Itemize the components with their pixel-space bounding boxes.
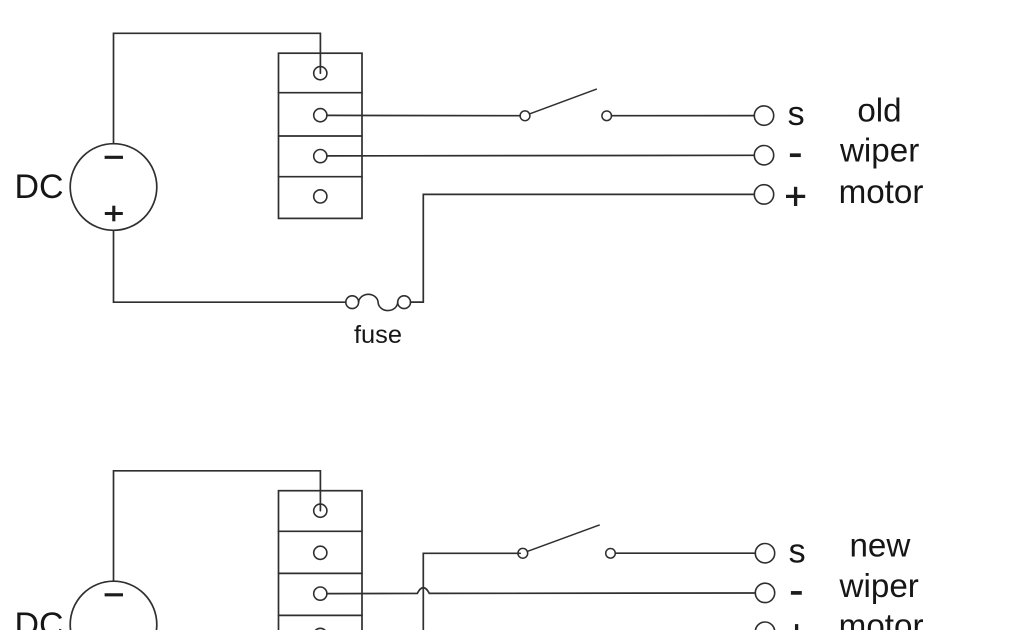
motor terminal plus circle (old) (754, 185, 773, 204)
motor terminal s circle (new) (755, 544, 774, 563)
fuse F1 left circle (old) (346, 296, 359, 309)
svg-text:motor: motor (839, 174, 924, 211)
switch S1 left contact (old) (520, 111, 530, 121)
label "+" (old) (786, 187, 805, 206)
terminal T3 circle (new) (314, 587, 327, 600)
fuse F1 right circle (old) (398, 296, 411, 309)
terminal block divider 1 (new) (279, 530, 363, 532)
terminal block divider 2 (new) (279, 572, 363, 574)
DC source B1 circle (old circuit) (70, 144, 157, 231)
wire: motor plus left and down to fuse (old) (411, 194, 755, 302)
svg-text:s: s (788, 95, 805, 133)
switch S2 right contact (new) (606, 549, 616, 559)
wire: fuse to DC positive (old) (114, 230, 346, 302)
terminal block body (new) (279, 491, 363, 630)
label "-" (new) (791, 591, 802, 595)
wire: switch to motor terminal s (new) (615, 552, 755, 554)
wire: DC negative up and over to terminal block T1 (new) (114, 471, 321, 581)
wire: vertical riser from plus node to switch (new) (423, 553, 520, 630)
terminal T3 circle (old) (314, 150, 327, 163)
terminal block divider 3 (old) (279, 176, 363, 178)
wire: terminal T3 to motor minus with hop over riser (new) (327, 588, 755, 594)
terminal T1 circle (new) (314, 504, 327, 517)
terminal T4 circle (new) (314, 628, 327, 630)
motor terminal minus circle (old) (754, 146, 773, 165)
wire: DC negative up and over to terminal block T1 (old) (114, 33, 321, 143)
svg-text:new: new (849, 527, 911, 564)
svg-text:DC: DC (15, 606, 64, 630)
label "-" (old) (790, 153, 801, 157)
switch S2 blade (new) (527, 525, 599, 551)
terminal block divider 2 (old) (279, 135, 363, 137)
DC source plus sign (old) (105, 206, 123, 222)
svg-text:wiper: wiper (839, 133, 919, 170)
label "+" (new) (787, 624, 806, 630)
terminal block divider 3 (new) (279, 614, 363, 616)
motor terminal plus circle (new) (755, 622, 774, 630)
switch S1 right contact (old) (602, 111, 612, 121)
fuse F1 wave element (old) (359, 294, 398, 310)
svg-text:DC: DC (15, 168, 64, 206)
svg-text:old: old (857, 93, 901, 130)
terminal block divider 1 (old) (279, 92, 363, 94)
wire: switch to motor terminal s (old) (612, 115, 755, 117)
svg-text:fuse: fuse (354, 321, 402, 349)
switch S2 left contact (new) (518, 548, 528, 558)
svg-text:wiper: wiper (839, 568, 919, 605)
motor terminal s circle (old) (754, 106, 773, 125)
terminal T2 circle (old) (314, 109, 327, 122)
terminal T1 circle (old) (314, 67, 327, 80)
wire: terminal T3 to motor minus (old) (327, 154, 754, 157)
DC source minus sign (old) (105, 156, 123, 159)
switch S1 blade (old) (530, 89, 597, 114)
terminal block body (old) (279, 53, 363, 218)
wire: terminal T2 to switch left contact (old) (327, 114, 520, 116)
svg-text:motor: motor (839, 608, 924, 630)
DC source B2 circle (new circuit) (70, 581, 157, 630)
DC source minus sign (new) (105, 593, 123, 596)
terminal T2 circle (new) (314, 546, 327, 559)
motor terminal minus circle (new) (755, 583, 774, 602)
svg-text:s: s (789, 533, 806, 571)
terminal T4 circle (old) (314, 190, 327, 203)
